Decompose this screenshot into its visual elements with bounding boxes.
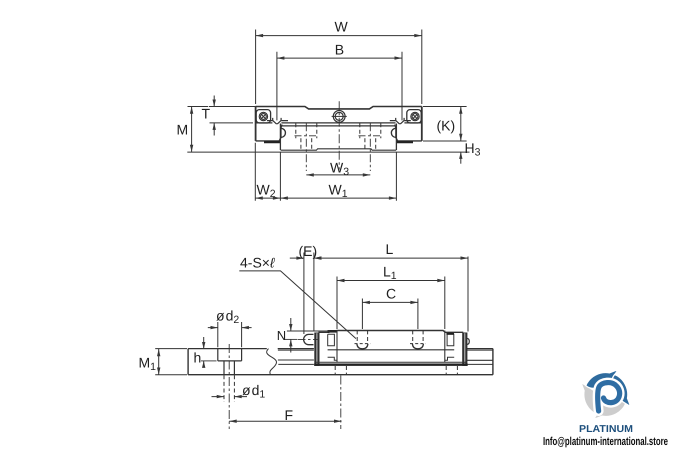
hole hidden lines below rail [224, 375, 234, 402]
dimension od1 [212, 396, 248, 398]
right ear foot (dark chamfer) [397, 141, 413, 143]
vertical centerline [338, 101, 340, 169]
rail top line [282, 125, 396, 127]
rail left edge [279, 124, 281, 151]
logo P mark halo [598, 383, 620, 411]
left ear foot (dark chamfer) [264, 141, 280, 143]
svg-text:(E): (E) [299, 243, 318, 259]
dimension H3 [460, 152, 462, 164]
block right edge [421, 107, 423, 141]
nipple centerline [298, 338, 319, 340]
dimension N [287, 330, 330, 332]
tapped hole B [410, 330, 426, 348]
grease nipple side [304, 334, 314, 344]
logo petal bottom (gray) [594, 401, 626, 420]
tapped hole A [355, 330, 371, 348]
dimension (E) [290, 257, 304, 259]
carriage bottom [314, 364, 468, 366]
left end cap lower step [328, 357, 337, 360]
leader 4-Sxl [239, 271, 356, 339]
carriage body top [318, 331, 463, 333]
svg-text:N: N [277, 328, 286, 343]
left end cap details [328, 334, 335, 345]
svg-text:W1: W1 [329, 181, 348, 200]
B-hole left chamfer mark [267, 118, 288, 124]
hole horizontal centermarks [295, 135, 383, 137]
carriage bottom thin line [315, 361, 466, 363]
svg-text:h: h [194, 350, 202, 366]
rail counterbore hole section [218, 349, 242, 375]
carriage top dark tab [328, 330, 337, 333]
rail top line [188, 348, 314, 350]
rail top right of carriage [467, 348, 493, 350]
rail hole right (hidden lines) [360, 123, 381, 150]
svg-text:T: T [202, 106, 211, 122]
rail shoulder line [278, 359, 493, 361]
dimension L1 [337, 277, 445, 330]
left ear inner slant [279, 125, 282, 141]
rail bottom line [188, 374, 493, 376]
svg-text:L1: L1 [383, 264, 397, 283]
svg-text:C: C [386, 285, 396, 301]
rail hole 3 hidden [446, 366, 457, 375]
dimension W2 [255, 197, 280, 199]
grease nipple front [332, 111, 347, 123]
rail hole right centerline [369, 123, 371, 171]
right screw [407, 110, 421, 123]
svg-text:F: F [285, 407, 294, 423]
dimension W [256, 30, 422, 105]
left raceway notch [281, 128, 286, 137]
svg-text:(K): (K) [437, 118, 456, 134]
right end cap details [447, 334, 454, 345]
B-hole right chamfer mark [390, 118, 411, 124]
dimension M1 [155, 349, 187, 375]
rail top second line [278, 349, 493, 351]
dimension M [188, 106, 209, 108]
dimension T [209, 106, 256, 108]
end cap joint left [336, 331, 338, 363]
right cap dark top edge [446, 333, 454, 335]
svg-text:ød2: ød2 [216, 308, 239, 327]
right end cap lower step [445, 357, 454, 360]
dimension C [362, 299, 418, 330]
svg-text:H3: H3 [465, 140, 481, 159]
block left edge [255, 107, 257, 141]
svg-text:ød1: ød1 [242, 382, 265, 401]
dimension W3 [306, 174, 370, 176]
end cap joint right [444, 331, 446, 363]
svg-text:W3: W3 [330, 160, 349, 179]
carriage right seal [462, 333, 467, 366]
logo petal left (gray) [581, 382, 600, 414]
rail hole 2 hidden [335, 366, 346, 375]
dimension F [229, 420, 341, 422]
rail left end [187, 349, 189, 375]
svg-text:M1: M1 [139, 355, 157, 374]
bottom plane line [187, 151, 469, 153]
svg-text:L: L [386, 241, 394, 257]
svg-text:Info@platinum-international.st: Info@platinum-international.store [543, 436, 668, 448]
hole 1 centerline [228, 344, 230, 429]
dimension B [277, 52, 402, 121]
svg-text:B: B [335, 41, 344, 57]
svg-text:W: W [335, 19, 349, 35]
logo petal right (blue) [612, 374, 631, 406]
left screw [256, 110, 270, 123]
svg-text:4-S×ℓ: 4-S×ℓ [240, 255, 276, 271]
rail shoulder lower line [278, 363, 493, 365]
hole 2 centerline [340, 376, 342, 430]
dimension od2 [218, 322, 242, 347]
dimension W2 / W1 extension lines [255, 143, 396, 201]
left ear bottom [256, 140, 281, 142]
right raceway notch [391, 128, 396, 137]
rail right edge [395, 124, 397, 151]
carriage left seal [314, 333, 319, 366]
right ear bottom [397, 140, 422, 142]
dimension L [314, 257, 468, 259]
rail hole left centerline [305, 123, 307, 171]
rail bottom line [281, 149, 397, 150]
logo center disk [595, 384, 617, 406]
right ear inner slant [395, 125, 398, 141]
logo P mark [598, 383, 620, 411]
rail hole left (hidden lines) [296, 123, 317, 150]
carriage skirt line [328, 349, 455, 351]
right seal nipple boss [467, 338, 469, 344]
svg-text:M: M [177, 122, 189, 138]
rail right end [492, 349, 494, 375]
dimension h [201, 360, 217, 362]
dimension (E)/L extension lines [304, 253, 468, 335]
dimension (K) [423, 106, 467, 108]
svg-text:W2: W2 [257, 181, 276, 200]
logo petal top (blue) [586, 370, 618, 389]
dimension W1 [280, 197, 396, 199]
rail break line [267, 349, 277, 375]
svg-text:PLATINUM: PLATINUM [579, 424, 633, 435]
block top outline [256, 107, 422, 109]
top plate bottom line [256, 122, 422, 124]
